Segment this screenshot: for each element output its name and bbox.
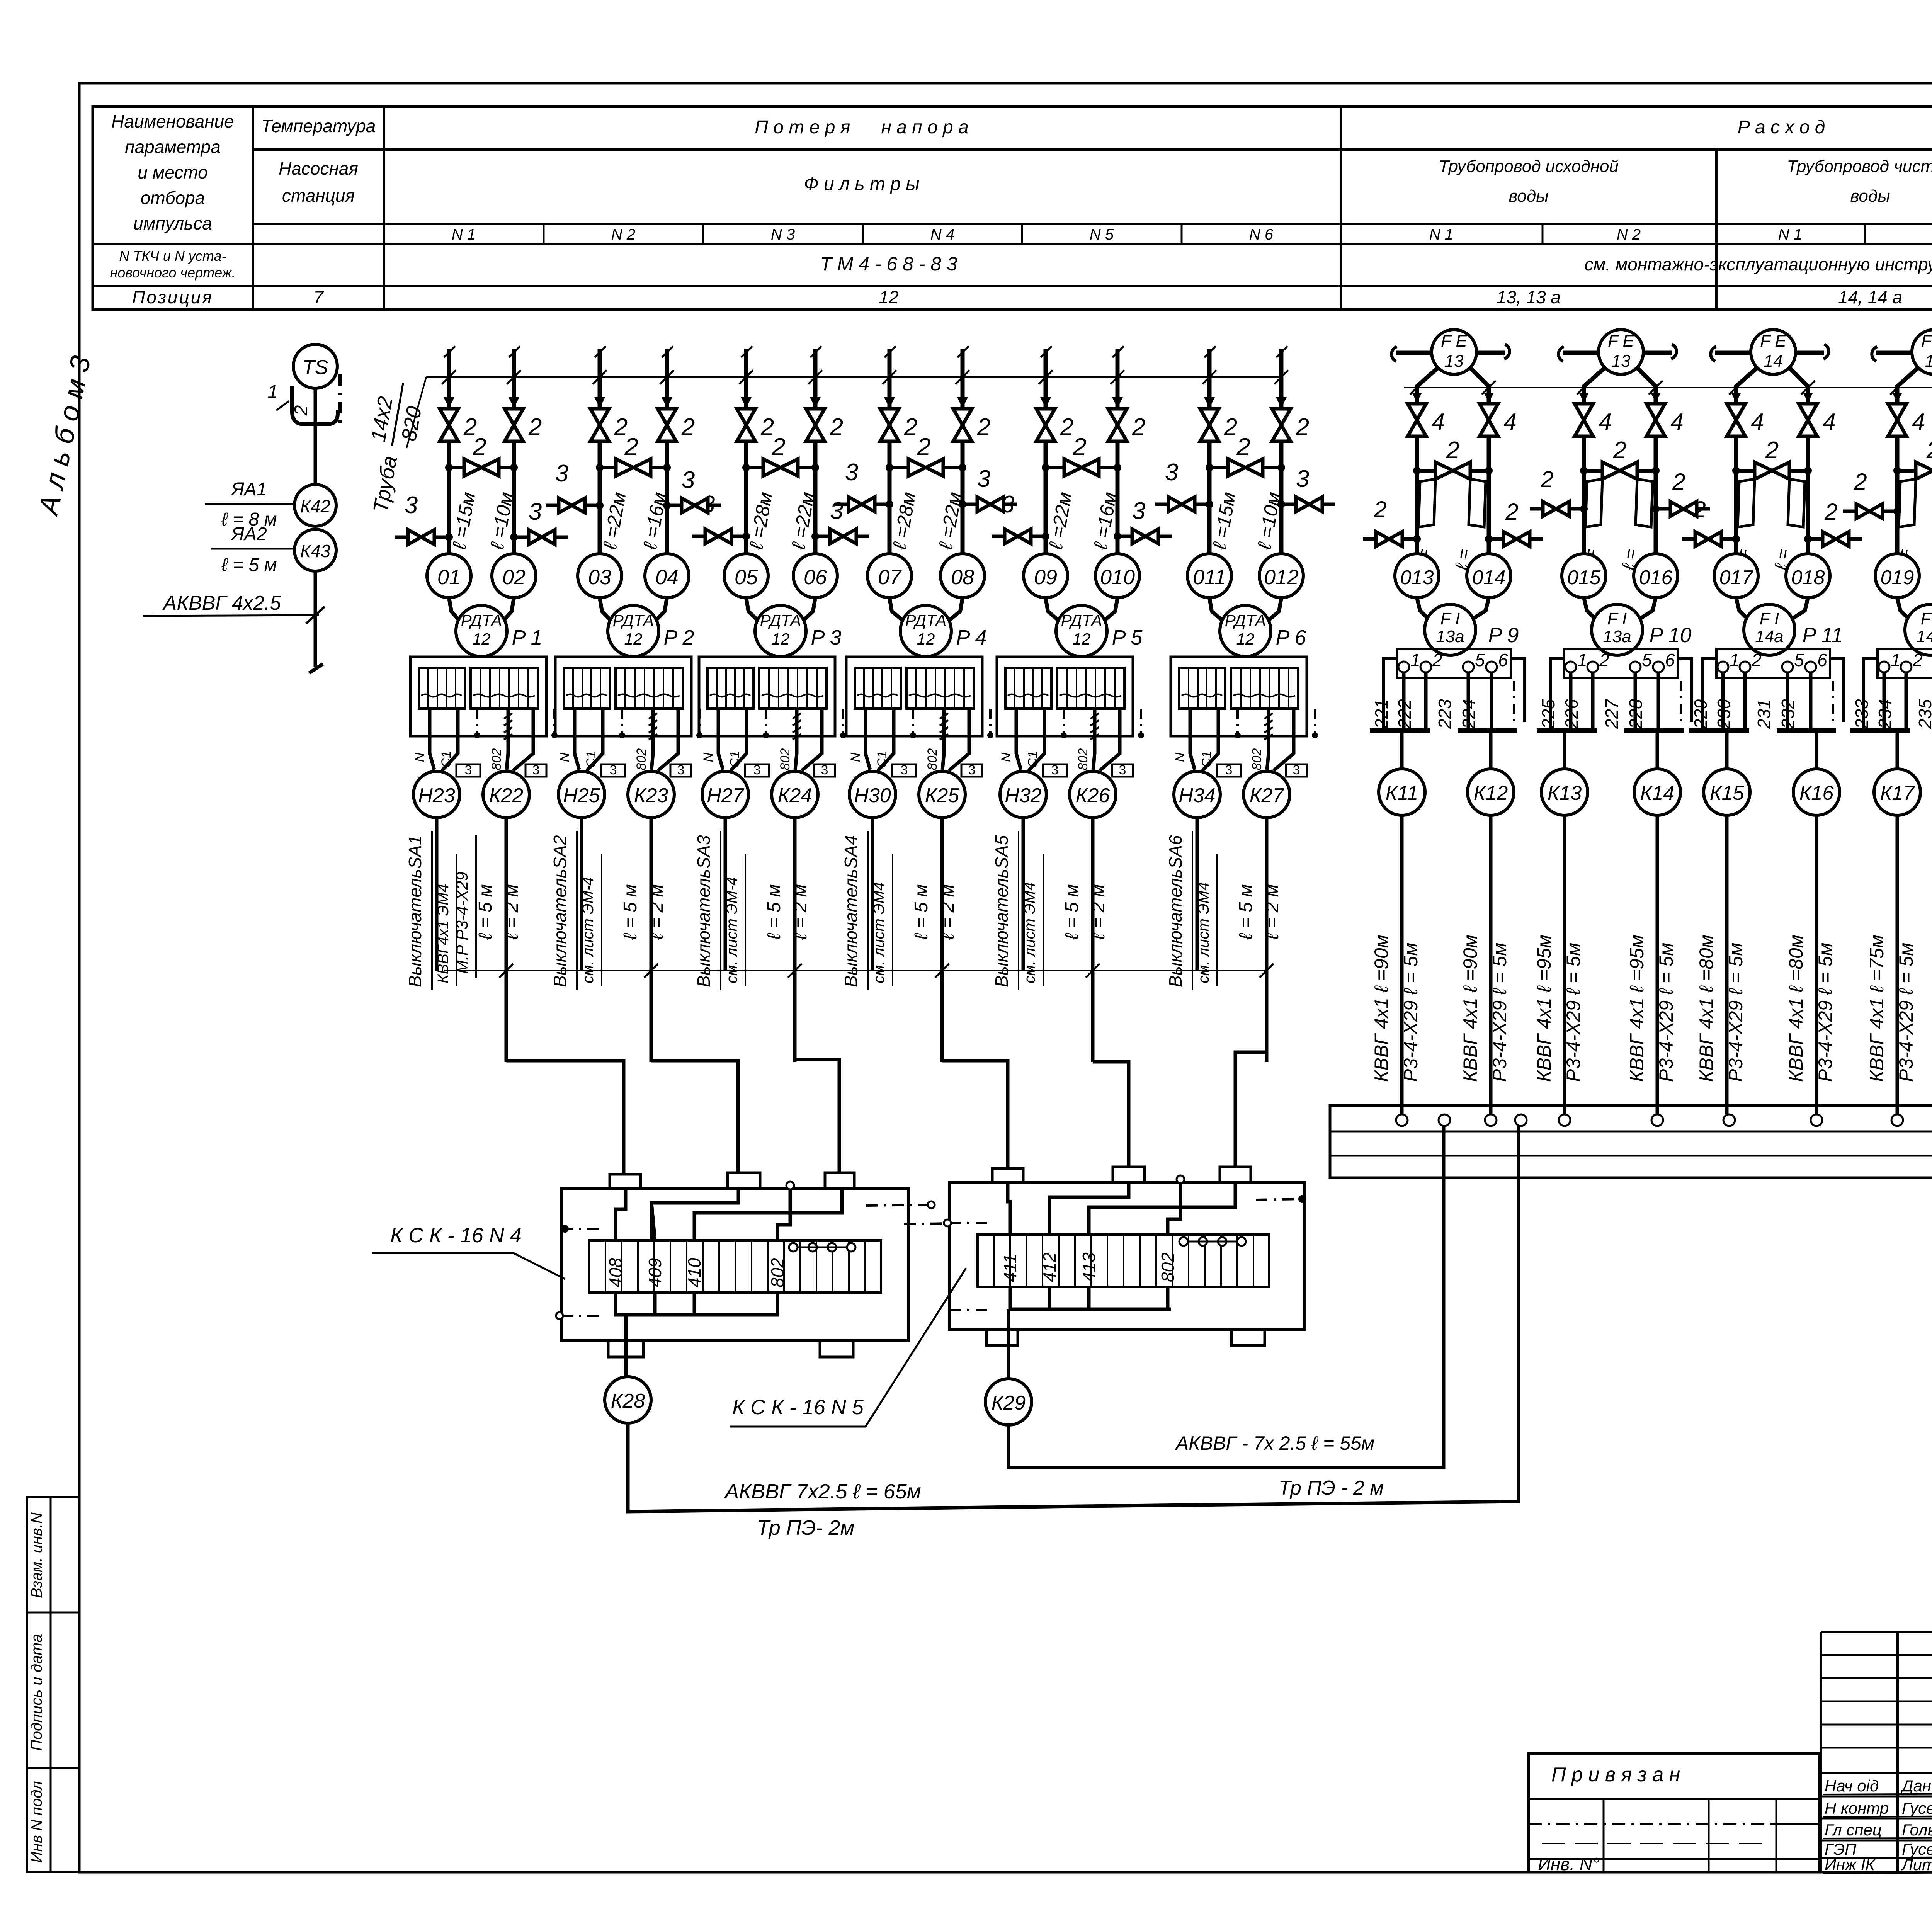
orifice 014 (1469, 479, 1486, 527)
slash left 4 (1890, 381, 1904, 395)
svg-text:234: 234 (1875, 699, 1895, 729)
svg-text:01: 01 (437, 566, 461, 589)
cable label К12 (1459, 935, 1510, 1082)
svg-text:233: 233 (1852, 699, 1872, 729)
svg-text:14: 14 (1764, 352, 1783, 371)
relay К23 (628, 771, 674, 818)
valve 2 side left flow group 4 (1843, 469, 1901, 519)
svg-text:N 2: N 2 (1617, 226, 1641, 243)
svg-text:Р а с х о д: Р а с х о д (1738, 117, 1825, 138)
svg-text:Данилов: Данилов (1900, 1777, 1932, 1795)
wire 017 to FI (1736, 598, 1750, 621)
svg-text:012: 012 (1264, 566, 1299, 589)
svg-text:РДТА: РДТА (905, 611, 947, 629)
valve 2 on pipe 09 (1036, 409, 1055, 441)
svg-text:С1: С1 (1199, 751, 1214, 767)
svg-text:К27: К27 (1250, 784, 1285, 807)
svg-text:P 6: P 6 (1276, 626, 1306, 649)
pipe riser 02 (507, 346, 521, 409)
svg-text:К29: К29 (992, 1392, 1026, 1414)
thermowell pocket (268, 374, 340, 427)
svg-text:F I: F I (1760, 609, 1779, 628)
svg-text:Подпись и дата: Подпись и дата (28, 1634, 45, 1751)
svg-text:P 4: P 4 (956, 626, 986, 649)
marker 3 under Н25 (601, 764, 625, 777)
wire K27 to KSK box (1235, 1052, 1267, 1168)
svg-text:Температура: Температура (261, 116, 376, 136)
wire 015 to FI (1584, 598, 1598, 621)
svg-text:К13: К13 (1548, 782, 1582, 804)
svg-text:4: 4 (1670, 409, 1683, 435)
svg-text:03: 03 (588, 566, 611, 589)
valve 2 on pipe 06 (806, 409, 825, 441)
pipe riser 01 (442, 346, 456, 409)
svg-text:2: 2 (1854, 469, 1867, 495)
wire 018 to FI (1789, 598, 1808, 621)
signature row Нач оiд (1823, 1777, 1932, 1795)
svg-text:Р3-4-Х29 ℓ = 5м: Р3-4-Х29 ℓ = 5м (1400, 943, 1422, 1082)
valve 4 on 019 (1892, 393, 1902, 403)
wire pipe 06 lower (813, 441, 818, 554)
relay К27 (1243, 771, 1290, 818)
svg-text:802: 802 (1076, 748, 1090, 770)
svg-text:П о т е р я н а п о р а: П о т е р я н а п о р а (755, 117, 968, 138)
pipe riser 012 (1274, 346, 1288, 409)
panel terminals (1396, 1114, 1932, 1126)
svg-text:2: 2 (472, 433, 486, 461)
svg-text:223: 223 (1435, 699, 1455, 729)
svg-text:N 3: N 3 (771, 226, 795, 243)
svg-text:P 1: P 1 (512, 626, 542, 649)
svg-text:2: 2 (624, 433, 638, 461)
svg-text:ВыключательSA2: ВыключательSA2 (550, 835, 570, 987)
wire К22 down (505, 818, 508, 1062)
pipe riser 010 (1111, 346, 1124, 409)
valve 2 side left flow group 1 (1363, 497, 1421, 546)
relay K29 (985, 1379, 1032, 1425)
svg-text:228: 228 (1626, 699, 1646, 729)
wire pipe 010 lower (1116, 441, 1120, 554)
instrument RDTA-12 P2 (608, 605, 659, 656)
svg-text:К43: К43 (300, 541, 331, 561)
instrument RDTA-12 P6 (1220, 605, 1271, 656)
cable labels К25 (911, 884, 958, 940)
svg-text:ℓ = 5 м: ℓ = 5 м (1236, 884, 1256, 940)
instrument 04 (645, 554, 689, 598)
svg-text:РДТА: РДТА (1061, 611, 1102, 629)
wire Н32 down (1022, 818, 1025, 971)
svg-text:К22: К22 (489, 784, 524, 807)
valve 2 on pipe 07 (880, 409, 899, 441)
wire К11 to panel (1400, 815, 1404, 1114)
svg-text:N 4: N 4 (930, 226, 954, 243)
wire 012 to RDTA (1265, 598, 1281, 623)
instrument RDTA-12 P3 (755, 605, 806, 656)
svg-text:ℓ = 5 м: ℓ = 5 м (221, 555, 277, 575)
cable label К13 (1533, 935, 1584, 1082)
relay К26 (1070, 771, 1116, 818)
svg-text:РДТА: РДТА (461, 611, 502, 629)
svg-text:014: 014 (1472, 566, 1506, 589)
svg-text:4: 4 (1503, 409, 1516, 435)
wire К13 to panel (1563, 815, 1566, 1114)
svg-text:2: 2 (1912, 650, 1923, 670)
svg-text:РДТА: РДТА (760, 611, 801, 629)
table grid (93, 107, 1932, 310)
bypass valve 2 group 5 (1042, 433, 1121, 476)
svg-text:14, 14 а: 14, 14 а (1838, 287, 1902, 307)
svg-text:229: 229 (1690, 699, 1711, 729)
svg-text:Литвинова: Литвинова (1901, 1855, 1932, 1874)
relay Н23 (413, 771, 460, 818)
instrument 05 (724, 554, 768, 598)
relay К22 (483, 771, 529, 818)
pipe label truba 14x2/820 left (354, 378, 430, 517)
cable labels К26 (1062, 884, 1109, 940)
svg-text:6: 6 (1665, 650, 1675, 670)
wire 06 to RDTA (801, 598, 815, 623)
svg-text:Инв. N°: Инв. N° (1538, 1854, 1599, 1874)
slash right 1 (1482, 381, 1496, 395)
svg-text:N ТКЧ и N уста-: N ТКЧ и N уста- (119, 248, 226, 264)
svg-text:2: 2 (1446, 437, 1459, 464)
marker 3 under К24 (814, 764, 835, 777)
switch label ВыключательSA6 (1165, 831, 1217, 990)
svg-text:ℓ = 5 м: ℓ = 5 м (475, 884, 496, 940)
svg-text:N: N (701, 752, 716, 762)
wires to Н32 (999, 709, 1067, 770)
orifice 017 (1738, 479, 1755, 527)
jumpers box1 (789, 1243, 855, 1252)
instrument 08 (940, 554, 985, 598)
svg-text:2: 2 (917, 433, 931, 461)
svg-text:1: 1 (1577, 650, 1587, 670)
svg-text:2: 2 (1692, 497, 1706, 522)
svg-text:Р3-4-Х29 ℓ = 5м: Р3-4-Х29 ℓ = 5м (1725, 943, 1747, 1082)
svg-text:К11: К11 (1386, 782, 1418, 804)
marker 3 under К23 (670, 764, 691, 777)
wire K25 to KSK box (942, 1061, 1008, 1168)
svg-text:см. лист ЭМ-4: см. лист ЭМ-4 (723, 877, 740, 983)
wire К27 down (1265, 818, 1269, 1062)
svg-text:N 2: N 2 (611, 226, 635, 243)
impulse header FE 14 group 4 (1872, 344, 1932, 361)
bypass valve 2 group 6 (1206, 433, 1285, 476)
wires to К25 (925, 709, 993, 770)
cable K29 to panel (1009, 1126, 1444, 1468)
valve 2 on pipe 04 (658, 409, 676, 441)
svg-text:ℓ = 5 м: ℓ = 5 м (1062, 884, 1082, 940)
wire pipe 012 lower (1279, 441, 1284, 554)
wire to К11 (1400, 731, 1404, 769)
marker 3 under Н34 (1217, 764, 1241, 777)
orifice 019 (1899, 479, 1916, 527)
pipe riser 09 (1039, 346, 1053, 409)
relay Н32 (1000, 771, 1046, 818)
marker 3 under К22 (526, 764, 546, 777)
svg-text:К24: К24 (778, 784, 812, 807)
chain lines box1 (556, 1201, 935, 1319)
svg-text:Р3-4-Х29 ℓ = 5м: Р3-4-Х29 ℓ = 5м (1815, 943, 1836, 1082)
wire 014 to FI (1470, 598, 1489, 621)
svg-text:2: 2 (1765, 437, 1779, 464)
orifice 015 (1585, 479, 1602, 527)
svg-text:3: 3 (1132, 498, 1145, 524)
svg-text:2: 2 (1224, 414, 1237, 440)
svg-text:см. лист ЭМ4: см. лист ЭМ4 (871, 882, 888, 983)
svg-text:К23: К23 (634, 784, 668, 807)
svg-text:13: 13 (1445, 352, 1464, 371)
instrument 07 (867, 554, 912, 598)
svg-text:P 9: P 9 (1488, 624, 1519, 647)
svg-text:019: 019 (1881, 566, 1914, 589)
svg-text:N 1: N 1 (1429, 226, 1453, 243)
svg-text:222: 222 (1395, 699, 1415, 729)
instrument 017 (1714, 554, 1758, 598)
svg-text:3: 3 (845, 459, 858, 486)
relay K28 (605, 1377, 651, 1423)
wire pipe 04 lower (665, 441, 669, 554)
signature row Н контр (1823, 1799, 1932, 1817)
svg-text:2: 2 (1373, 497, 1386, 522)
svg-text:3: 3 (1001, 491, 1014, 518)
svg-text:К26: К26 (1076, 784, 1110, 807)
pipe riser 08 (956, 346, 969, 409)
svg-text:РДТА: РДТА (613, 611, 654, 629)
svg-text:Ф и л ь т р ы: Ф и л ь т р ы (804, 174, 919, 194)
svg-text:802: 802 (767, 1258, 787, 1287)
operator panel box (1330, 1105, 1932, 1178)
svg-text:2: 2 (1505, 499, 1518, 525)
relay Н30 (849, 771, 896, 818)
svg-text:3: 3 (821, 763, 828, 777)
svg-text:14а: 14а (1755, 627, 1783, 646)
svg-text:2: 2 (1296, 414, 1309, 440)
cable labels К23 (620, 884, 667, 940)
switch label ВыключательSA1 (405, 831, 457, 990)
svg-text:К14: К14 (1640, 782, 1675, 804)
svg-text:3: 3 (1051, 763, 1059, 777)
svg-text:408: 408 (605, 1258, 626, 1287)
svg-text:4: 4 (1912, 409, 1925, 435)
svg-text:Н23: Н23 (418, 784, 455, 807)
svg-text:АКВВГ 7х2.5 ℓ = 65м: АКВВГ 7х2.5 ℓ = 65м (724, 1480, 921, 1503)
svg-text:2: 2 (1824, 499, 1837, 525)
svg-text:5: 5 (1642, 650, 1652, 670)
svg-text:5: 5 (1475, 650, 1485, 670)
wire pipe 05 lower (744, 441, 748, 554)
wires to Н27 (701, 709, 769, 770)
valve 4 on 016 (1651, 393, 1661, 403)
pipe main header left (426, 376, 1281, 378)
valve 2 on pipe 01 (440, 409, 458, 441)
wire FE left slant 4 (1897, 368, 1918, 554)
svg-text:3: 3 (1225, 763, 1233, 777)
relay К16 (1793, 769, 1840, 815)
wires to К26 (1076, 709, 1144, 770)
marker 3 under Н30 (892, 764, 916, 777)
svg-text:КВВГ 4х1 ℓ =90м: КВВГ 4х1 ℓ =90м (1371, 935, 1392, 1082)
drain valve 3 right group 5 (1114, 498, 1172, 544)
svg-text:015: 015 (1567, 566, 1601, 589)
wire K23 to KSK box (651, 1061, 738, 1173)
wire К17 to panel (1896, 815, 1899, 1114)
svg-text:3: 3 (901, 763, 908, 777)
svg-text:ВыключательSA3: ВыключательSA3 (694, 835, 714, 987)
svg-text:К С К - 16 N 5: К С К - 16 N 5 (732, 1396, 864, 1419)
switch label ВыключательSA2 (550, 831, 602, 990)
valve 2 on pipe 012 (1272, 409, 1291, 441)
wire 013 to FI (1417, 598, 1431, 621)
svg-text:3: 3 (753, 763, 761, 777)
instrument FI 13а #2 (1592, 604, 1643, 655)
jumpers box2 (1179, 1237, 1246, 1246)
wire pipe 011 lower (1207, 441, 1212, 554)
svg-text:013: 013 (1400, 566, 1434, 589)
strip wires P 11 (1689, 659, 1844, 731)
svg-text:КВВГ 4х1 ℓ =80м: КВВГ 4х1 ℓ =80м (1785, 935, 1807, 1082)
table head loss section (452, 117, 1274, 307)
svg-text:1: 1 (1730, 650, 1740, 670)
svg-text:011: 011 (1193, 566, 1226, 589)
svg-text:Трубопровод чистой: Трубопровод чистой (1787, 157, 1932, 176)
cable label К15 (1696, 935, 1747, 1082)
wire K26 to KSK box (1093, 1062, 1129, 1168)
svg-text:ЯА2: ЯА2 (230, 524, 267, 544)
svg-text:12: 12 (624, 630, 643, 648)
wire 04 to RDTA (653, 598, 667, 623)
svg-text:3: 3 (702, 491, 715, 518)
instrument 03 (578, 554, 622, 598)
svg-text:802: 802 (925, 748, 940, 770)
svg-text:КВВГ 4х1 ℓ =80м: КВВГ 4х1 ℓ =80м (1696, 935, 1717, 1082)
instrument TS (293, 344, 337, 388)
svg-text:Тр ПЭ- 2м: Тр ПЭ- 2м (757, 1516, 855, 1539)
svg-text:P 2: P 2 (663, 626, 694, 649)
relay К17 (1874, 769, 1920, 815)
svg-text:С1: С1 (584, 751, 599, 767)
wire to К15 (1725, 731, 1729, 769)
marker 3 under К26 (1112, 764, 1133, 777)
svg-text:ℓ = 2 м: ℓ = 2 м (1088, 884, 1109, 940)
pipe main header right (1404, 387, 1932, 388)
svg-text:N: N (557, 752, 572, 762)
svg-text:235: 235 (1915, 699, 1932, 729)
strip wires P 9 (1370, 659, 1525, 731)
cable label К17 (1866, 935, 1917, 1082)
svg-text:КВВГ 4х1 ℓ =95м: КВВГ 4х1 ℓ =95м (1626, 935, 1648, 1082)
svg-text:13, 13 а: 13, 13 а (1497, 287, 1561, 307)
svg-text:АКВВГ 4х2.5: АКВВГ 4х2.5 (162, 592, 282, 614)
svg-text:409: 409 (645, 1258, 665, 1287)
wire 02 to RDTA (502, 598, 514, 623)
wire 08 to RDTA (946, 598, 963, 623)
wire Н30 down (871, 818, 874, 971)
svg-text:см. лист ЭМ4: см. лист ЭМ4 (1195, 882, 1212, 983)
svg-text:АКВВГ - 7х 2.5 ℓ = 55м: АКВВГ - 7х 2.5 ℓ = 55м (1175, 1432, 1374, 1454)
svg-text:2: 2 (1751, 650, 1762, 670)
valve 2 side left flow group 3 (1682, 497, 1740, 546)
svg-text:13: 13 (1612, 352, 1631, 371)
svg-text:2: 2 (1432, 650, 1442, 670)
svg-text:227: 227 (1602, 699, 1622, 729)
strip wires P 10 (1537, 659, 1692, 731)
svg-text:4: 4 (1751, 409, 1764, 435)
terminal box group 3 (699, 657, 835, 736)
svg-text:2: 2 (1540, 466, 1553, 492)
svg-text:ℓ = 2 м: ℓ = 2 м (502, 884, 522, 940)
svg-text:3: 3 (1293, 763, 1300, 777)
instrument 06 (793, 554, 837, 598)
bottom bus box2 (1009, 1287, 1171, 1379)
svg-text:12: 12 (772, 630, 790, 648)
wire pipe 01 lower (447, 441, 451, 554)
svg-text:F E: F E (1921, 332, 1932, 350)
svg-text:и место: и место (138, 162, 207, 182)
svg-text:2: 2 (1926, 437, 1932, 464)
svg-text:4: 4 (1823, 409, 1835, 435)
instrument 018 (1786, 554, 1830, 598)
bypass valve 2 flow group 3 (1732, 437, 1812, 479)
svg-text:4: 4 (1599, 409, 1611, 435)
junction box K43 (294, 529, 336, 571)
wires to К24 (778, 709, 846, 770)
svg-text:3: 3 (677, 763, 685, 777)
svg-text:N: N (1173, 752, 1187, 762)
svg-text:09: 09 (1034, 566, 1057, 589)
svg-text:3: 3 (465, 763, 472, 777)
svg-text:411: 411 (1000, 1254, 1020, 1282)
instrument 012 (1259, 554, 1303, 598)
marker 3 under Н23 (456, 764, 480, 777)
bypass valve 2 flow group 4 (1893, 437, 1932, 479)
junction box K42 (294, 485, 336, 526)
slash right 2 (1649, 381, 1663, 395)
wire pipe 02 lower (512, 441, 516, 554)
svg-text:ℓ = 2 м: ℓ = 2 м (790, 884, 811, 940)
svg-text:13а: 13а (1603, 627, 1631, 646)
marker 3 under К25 (961, 764, 982, 777)
svg-text:ℓ = 2 м: ℓ = 2 м (646, 884, 667, 940)
relay К25 (919, 771, 965, 818)
leader to pipe label (406, 377, 426, 448)
svg-text:04: 04 (655, 566, 679, 589)
wire К12 to panel (1489, 815, 1493, 1114)
wire К23 down (650, 818, 653, 1062)
drain valve 3 right group 1 (510, 498, 568, 544)
svg-text:N: N (999, 752, 1014, 762)
svg-text:221: 221 (1371, 699, 1391, 729)
svg-text:параметра: параметра (125, 137, 221, 157)
relay К15 (1704, 769, 1750, 815)
svg-text:С1: С1 (875, 751, 889, 767)
svg-text:02: 02 (502, 566, 526, 589)
wires to К22 (489, 709, 558, 770)
terminal strip P 11 (1716, 649, 1830, 678)
wire K22 to KSK box (506, 1061, 624, 1174)
svg-text:N 1: N 1 (1778, 226, 1802, 243)
svg-text:К17: К17 (1880, 782, 1915, 804)
instrument RDTA-12 P1 (456, 605, 507, 656)
svg-text:226: 226 (1561, 699, 1582, 729)
label YA1 (205, 503, 294, 505)
valve 2 on pipe 08 (953, 409, 972, 441)
svg-text:К16: К16 (1799, 782, 1834, 804)
instrument FI 14а #3 (1744, 604, 1795, 655)
svg-text:К42: К42 (300, 496, 330, 516)
svg-text:Н контр: Н контр (1825, 1799, 1889, 1817)
svg-text:Нач оiд: Нач оiд (1825, 1777, 1879, 1795)
